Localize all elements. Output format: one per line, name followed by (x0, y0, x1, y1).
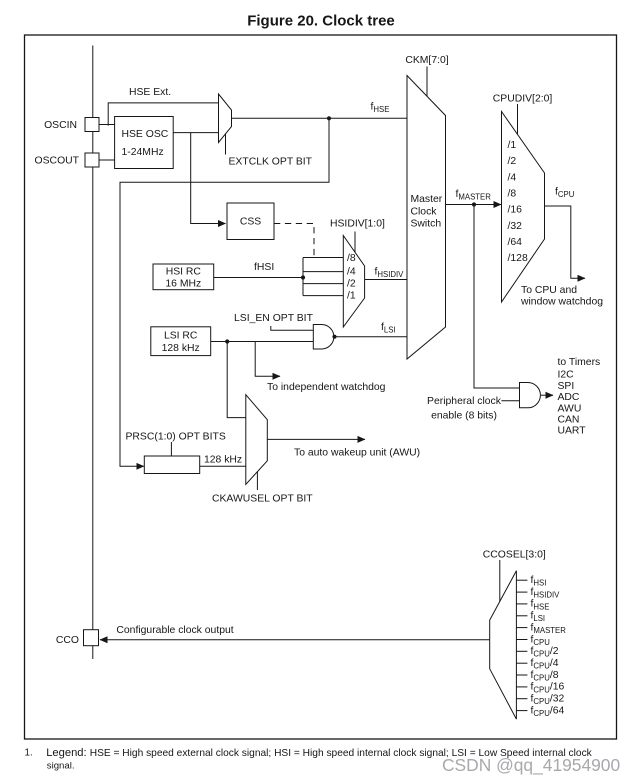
wire LSI RC output (211, 341, 314, 343)
wire fCPU stub (516, 639, 527, 641)
mux CCOSEL (490, 571, 517, 719)
wire OSCIN to HSE OSC (99, 124, 115, 126)
wire peripheral gate output (541, 394, 553, 396)
svg-text:To auto wakeup unit (AWU): To auto wakeup unit (AWU) (294, 448, 420, 459)
bus line (package boundary) (92, 46, 94, 660)
svg-text:/8: /8 (508, 189, 517, 200)
node LSI branch (225, 339, 229, 343)
mux HSI divider (343, 236, 364, 328)
svg-text:fHSI: fHSI (254, 262, 274, 273)
svg-text:fMASTER: fMASTER (456, 189, 492, 202)
svg-text:/32: /32 (508, 221, 523, 232)
svg-text:To CPU and: To CPU and (521, 285, 577, 296)
svg-text:PRSC(1:0) OPT BITS: PRSC(1:0) OPT BITS (126, 432, 226, 443)
svg-text:Clock: Clock (411, 206, 438, 217)
wire fMASTER stub (516, 627, 527, 629)
svg-text:/64: /64 (508, 237, 523, 248)
select wire HSIDIV (354, 232, 356, 253)
svg-text:fCPU/8: fCPU/8 (531, 670, 559, 683)
wire fHSI (214, 277, 303, 279)
wire prescaler to mux (200, 465, 246, 467)
svg-text:128 kHz: 128 kHz (162, 343, 200, 354)
svg-text:Master: Master (411, 194, 443, 205)
wire AWU output (267, 438, 365, 440)
block CSS (227, 203, 274, 240)
svg-text:/8: /8 (347, 253, 356, 264)
svg-text:fHSIDIV: fHSIDIV (531, 587, 561, 600)
pad OSCOUT (85, 153, 99, 167)
wire peripheral enable (501, 400, 519, 402)
wire LSI to AWU mux (227, 342, 246, 418)
wire /8 stub (303, 257, 343, 259)
svg-text:window watchdog: window watchdog (520, 297, 603, 308)
pad OSCIN (85, 118, 99, 132)
svg-text:fCPU/32: fCPU/32 (531, 694, 565, 707)
wire fCPU/2 stub (516, 650, 527, 652)
wire fLSI (334, 336, 407, 338)
wire fCPU (545, 206, 586, 278)
svg-text:Configurable clock output: Configurable clock output (116, 625, 233, 636)
mux CKAWUSEL (246, 395, 267, 485)
node fMASTER branch (472, 202, 476, 206)
svg-text:fHSE: fHSE (531, 599, 550, 612)
svg-text:fCPU/2: fCPU/2 (531, 646, 559, 659)
block HSE OSC (115, 117, 174, 169)
block LSI RC (151, 327, 211, 356)
wire HSE Ext. (108, 103, 218, 126)
svg-text:HSIDIV[1:0]: HSIDIV[1:0] (330, 219, 385, 230)
svg-text:16 MHz: 16 MHz (165, 279, 201, 290)
wire CCO output (100, 639, 490, 641)
node fLSI (332, 335, 336, 339)
svg-text:fCPU/16: fCPU/16 (531, 682, 565, 695)
wire input bar (302, 258, 304, 296)
svg-text:/16: /16 (508, 205, 523, 216)
mux EXTCLK (219, 94, 232, 143)
svg-text:/4: /4 (508, 172, 517, 183)
wire fHSI stub (516, 579, 527, 581)
block AWU prescaler (144, 456, 199, 474)
svg-text:to Timers: to Timers (558, 357, 601, 368)
svg-text:CAN: CAN (558, 415, 580, 426)
svg-text:fCPU/64: fCPU/64 (531, 705, 565, 718)
block HSI RC (153, 264, 214, 290)
wire fCPU/16 stub (516, 686, 527, 688)
svg-text:fCPU/4: fCPU/4 (531, 658, 559, 671)
svg-text:LSI RC: LSI RC (164, 331, 198, 342)
svg-text:fHSIDIV: fHSIDIV (375, 267, 405, 280)
wire fHSE stub (516, 603, 527, 605)
svg-text:fLSI: fLSI (531, 611, 546, 624)
wire /1 stub (303, 295, 343, 297)
svg-text:CKM[7:0]: CKM[7:0] (405, 55, 448, 66)
svg-text:/1: /1 (347, 291, 356, 302)
svg-text:CSDN @qq_41954900: CSDN @qq_41954900 (442, 755, 620, 775)
wire fHSIDIV (365, 279, 407, 281)
svg-text:1-24MHz: 1-24MHz (122, 147, 164, 158)
wire fMASTER to peripheral gate (474, 205, 520, 389)
svg-text:AWU: AWU (558, 403, 582, 414)
wire fHSE (232, 117, 408, 119)
svg-text:Switch: Switch (411, 219, 442, 230)
wire HSE OSC output (173, 132, 218, 134)
svg-text:I2C: I2C (558, 370, 575, 381)
svg-text:fMASTER: fMASTER (531, 622, 567, 635)
node fHSE branch (327, 116, 331, 120)
svg-text:CPUDIV[2:0]: CPUDIV[2:0] (493, 94, 553, 105)
svg-text:signal.: signal. (47, 760, 75, 771)
svg-text:1.: 1. (25, 748, 33, 759)
wire CSS dashed to HSI divider (274, 224, 314, 258)
svg-text:Figure 20. Clock tree: Figure 20. Clock tree (247, 13, 395, 30)
svg-text:ADC: ADC (558, 392, 580, 403)
svg-text:CCOSEL[3:0]: CCOSEL[3:0] (483, 550, 546, 561)
select wire CCOSEL (499, 560, 501, 602)
wire fHSIDIV stub (516, 591, 527, 593)
wire OSCOUT to HSE OSC (99, 159, 115, 161)
svg-text:fCPU: fCPU (555, 187, 575, 200)
svg-text:/128: /128 (508, 253, 528, 264)
svg-text:SPI: SPI (558, 381, 575, 392)
svg-text:CSS: CSS (240, 217, 261, 228)
svg-text:HSE OSC: HSE OSC (122, 129, 169, 140)
svg-text:enable (8 bits): enable (8 bits) (431, 411, 497, 422)
svg-text:OSCIN: OSCIN (44, 120, 77, 131)
select wire PRSC (170, 442, 172, 456)
select wire CPUDIV (517, 104, 519, 134)
wire fHSE to AWU prescaler (120, 118, 329, 466)
wire fMASTER (446, 204, 502, 206)
svg-text:CKAWUSEL OPT BIT: CKAWUSEL OPT BIT (212, 494, 313, 505)
mux CPU divider (502, 112, 545, 303)
svg-text:HSI RC: HSI RC (166, 267, 202, 278)
svg-text:/4: /4 (347, 267, 356, 278)
wire branch to CSS (191, 133, 226, 224)
node fHSI (301, 275, 305, 279)
svg-text:EXTCLK OPT BIT: EXTCLK OPT BIT (229, 157, 313, 168)
wire fCPU/4 stub (516, 662, 527, 664)
wire LSI to IWDG (255, 342, 280, 377)
wire /2 stub (303, 283, 343, 285)
svg-text:fHSE: fHSE (371, 102, 390, 115)
wire fCPU/32 stub (516, 698, 527, 700)
mux Master Clock Switch (407, 76, 446, 360)
svg-text:/2: /2 (508, 156, 517, 167)
select wire CKM (426, 67, 428, 97)
select wire CKAWUSEL (256, 472, 258, 490)
svg-text:128 kHz: 128 kHz (204, 455, 242, 466)
svg-text:HSE Ext.: HSE Ext. (129, 87, 171, 98)
svg-text:UART: UART (558, 426, 587, 437)
svg-text:To independent watchdog: To independent watchdog (267, 382, 386, 393)
svg-text:Peripheral clock: Peripheral clock (427, 396, 502, 407)
svg-text:LSI_EN OPT BIT: LSI_EN OPT BIT (234, 313, 314, 324)
svg-text:fHSI: fHSI (531, 575, 547, 588)
gate AND LSI_EN (313, 325, 334, 350)
svg-text:fCPU: fCPU (531, 634, 551, 647)
wire LSI_EN (271, 326, 314, 330)
wire /4 stub (303, 271, 343, 273)
svg-text:fLSI: fLSI (381, 322, 396, 335)
svg-text:/2: /2 (347, 279, 356, 290)
wire fCPU/8 stub (516, 674, 527, 676)
svg-text:CCO: CCO (56, 635, 79, 646)
svg-text:/1: /1 (508, 140, 517, 151)
pad CCO (84, 630, 99, 646)
wire fCPU/64 stub (516, 710, 527, 712)
gate AND peripheral enable (520, 383, 541, 408)
wire fLSI stub (516, 615, 527, 617)
select wire EXTCLK (225, 134, 227, 155)
svg-text:OSCOUT: OSCOUT (35, 155, 80, 166)
